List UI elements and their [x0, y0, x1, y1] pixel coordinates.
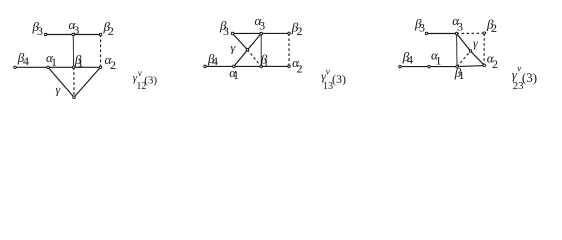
svg-text:γ: γ	[231, 41, 236, 55]
svg-text:4: 4	[23, 54, 29, 68]
svg-text:2: 2	[297, 24, 303, 38]
svg-text:1: 1	[51, 55, 57, 69]
svg-text:3: 3	[223, 24, 229, 38]
svg-text:γ: γ	[473, 36, 478, 50]
svg-text:1: 1	[436, 53, 442, 67]
svg-text:1: 1	[459, 68, 465, 82]
svg-text:1: 1	[263, 55, 269, 69]
svg-text:(3): (3)	[144, 75, 157, 87]
svg-text:3: 3	[37, 24, 43, 38]
svg-text:v: v	[326, 67, 330, 77]
svg-text:2: 2	[108, 24, 114, 38]
svg-text:3: 3	[259, 19, 265, 33]
svg-text:2: 2	[492, 57, 498, 71]
svg-text:γ: γ	[56, 83, 61, 97]
svg-text:3: 3	[457, 19, 463, 33]
svg-text:3: 3	[419, 20, 425, 34]
svg-text:(3): (3)	[522, 70, 537, 85]
svg-text:v: v	[138, 68, 142, 78]
svg-text:4: 4	[407, 52, 413, 66]
svg-text:2: 2	[491, 21, 497, 35]
svg-text:2: 2	[297, 61, 303, 75]
svg-text:4: 4	[212, 54, 218, 68]
svg-text:v: v	[517, 64, 521, 74]
svg-text:(3): (3)	[332, 72, 346, 86]
svg-text:1: 1	[233, 68, 239, 82]
svg-text:3: 3	[73, 23, 79, 37]
svg-text:2: 2	[110, 58, 116, 72]
svg-text:1: 1	[78, 56, 84, 70]
